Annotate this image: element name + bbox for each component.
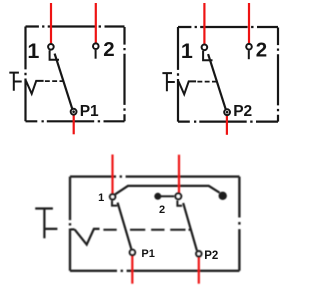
wire red net to terminal 2 (S1) bbox=[95, 3, 97, 43]
moving contact lever P2-1 (S2) bbox=[208, 54, 226, 109]
svg-text:P1: P1 bbox=[80, 103, 99, 120]
fixed contact hook of terminal 1 (S2) bbox=[203, 51, 212, 60]
terminal P1 pin circle (S1) bbox=[71, 109, 77, 115]
switch body boundary S2 top edge bbox=[178, 26, 278, 28]
switch body boundary S3 right edge bbox=[238, 177, 240, 271]
switch body boundary S1 bottom edge bbox=[26, 120, 125, 122]
terminal P2 pin circle (S3) bbox=[196, 251, 201, 256]
terminal 2 pin circle (S2) bbox=[246, 44, 252, 50]
terminal 1 pin circle (S2) bbox=[202, 45, 208, 51]
throw contact dot 2 (S3) bbox=[154, 193, 161, 200]
fixed contact hook pole B (S3) bbox=[177, 201, 182, 206]
svg-text:1: 1 bbox=[98, 192, 104, 204]
mechanical coupling dashed (S3) bbox=[103, 229, 190, 231]
svg-text:1: 1 bbox=[27, 39, 39, 63]
spring zigzag (S2) bbox=[178, 81, 196, 94]
wire red net to terminal P1 (S3) bbox=[131, 256, 133, 284]
svg-text:2: 2 bbox=[159, 204, 165, 216]
terminal P2 pin circle (S2) bbox=[224, 109, 230, 115]
switch body boundary S2 bottom edge bbox=[178, 120, 278, 122]
terminal 1 pin circle (S1) bbox=[48, 44, 54, 50]
terminal P1 center dot (S1) bbox=[72, 110, 75, 113]
fixed contact hook of terminal 1 (S1) bbox=[50, 50, 59, 59]
moving contact lever P1-1 (S1) bbox=[55, 54, 73, 109]
spring zigzag (S1) bbox=[26, 81, 44, 94]
svg-text:P2: P2 bbox=[204, 250, 218, 262]
moving contact lever pole B (S3) bbox=[183, 203, 197, 251]
switch body boundary S1 top edge bbox=[26, 25, 125, 27]
right throw contact dot (S3) bbox=[219, 192, 227, 200]
switch body boundary S3 left edge bbox=[69, 177, 71, 271]
svg-text:1: 1 bbox=[181, 39, 193, 63]
mechanical link dashed (S2) bbox=[197, 81, 216, 83]
switch body boundary S2 left edge bbox=[177, 27, 179, 122]
actuator toggle lever symbol (S1) bbox=[9, 73, 21, 91]
wire red net to terminal 1 (S2) bbox=[203, 3, 205, 44]
terminal 2 stub (S2) bbox=[248, 51, 250, 60]
spring entry tick (S3) bbox=[71, 228, 75, 230]
switch body boundary S1 right edge bbox=[123, 27, 125, 121]
wire red net to terminal P2 (S3) bbox=[198, 257, 200, 283]
moving contact lever pole A (S3) bbox=[118, 203, 132, 249]
pole-B throw pin circle (S3) bbox=[175, 193, 181, 199]
switch body boundary S2 right edge bbox=[277, 28, 279, 122]
svg-text:2: 2 bbox=[256, 38, 267, 61]
wire red net to pole-B throw terminal (S3) bbox=[178, 155, 180, 193]
fixed contact hook pole A (S3) bbox=[112, 201, 117, 206]
svg-text:P1: P1 bbox=[141, 248, 154, 260]
svg-text:P2: P2 bbox=[233, 103, 252, 120]
wire red net to terminal 1 (S1) bbox=[50, 3, 52, 43]
wire dot2 to pole-B circle (S3) bbox=[159, 195, 174, 197]
terminal P2 center dot (S2) bbox=[226, 111, 229, 114]
wire red net to terminal 2 (S2) bbox=[248, 3, 250, 43]
terminal P1 pin circle (S3) bbox=[130, 250, 135, 255]
terminal 2 pin circle (S1) bbox=[93, 43, 99, 49]
mechanical link dashed (S1) bbox=[45, 80, 64, 82]
switch body boundary S3 bottom edge bbox=[70, 270, 239, 272]
spring zigzag (S3) bbox=[75, 229, 100, 245]
actuator toggle lever symbol (S2) bbox=[162, 73, 174, 91]
actuator toggle lever symbol (S3) bbox=[35, 209, 57, 239]
switch body boundary S3 top edge bbox=[70, 175, 239, 177]
wire red net to terminal P1 (S1) bbox=[73, 115, 75, 134]
wire red net to terminal P2 (S2) bbox=[226, 116, 228, 135]
terminal 1 pin circle (S3) bbox=[110, 194, 115, 199]
switch body boundary S1 left edge bbox=[24, 27, 26, 122]
wire red net to terminal 1 (S3) bbox=[111, 155, 113, 194]
wire terminal1 to right throw dot (S3) bbox=[115, 186, 219, 194]
terminal 2 stub (S1) bbox=[95, 50, 97, 59]
svg-text:2: 2 bbox=[103, 38, 114, 61]
